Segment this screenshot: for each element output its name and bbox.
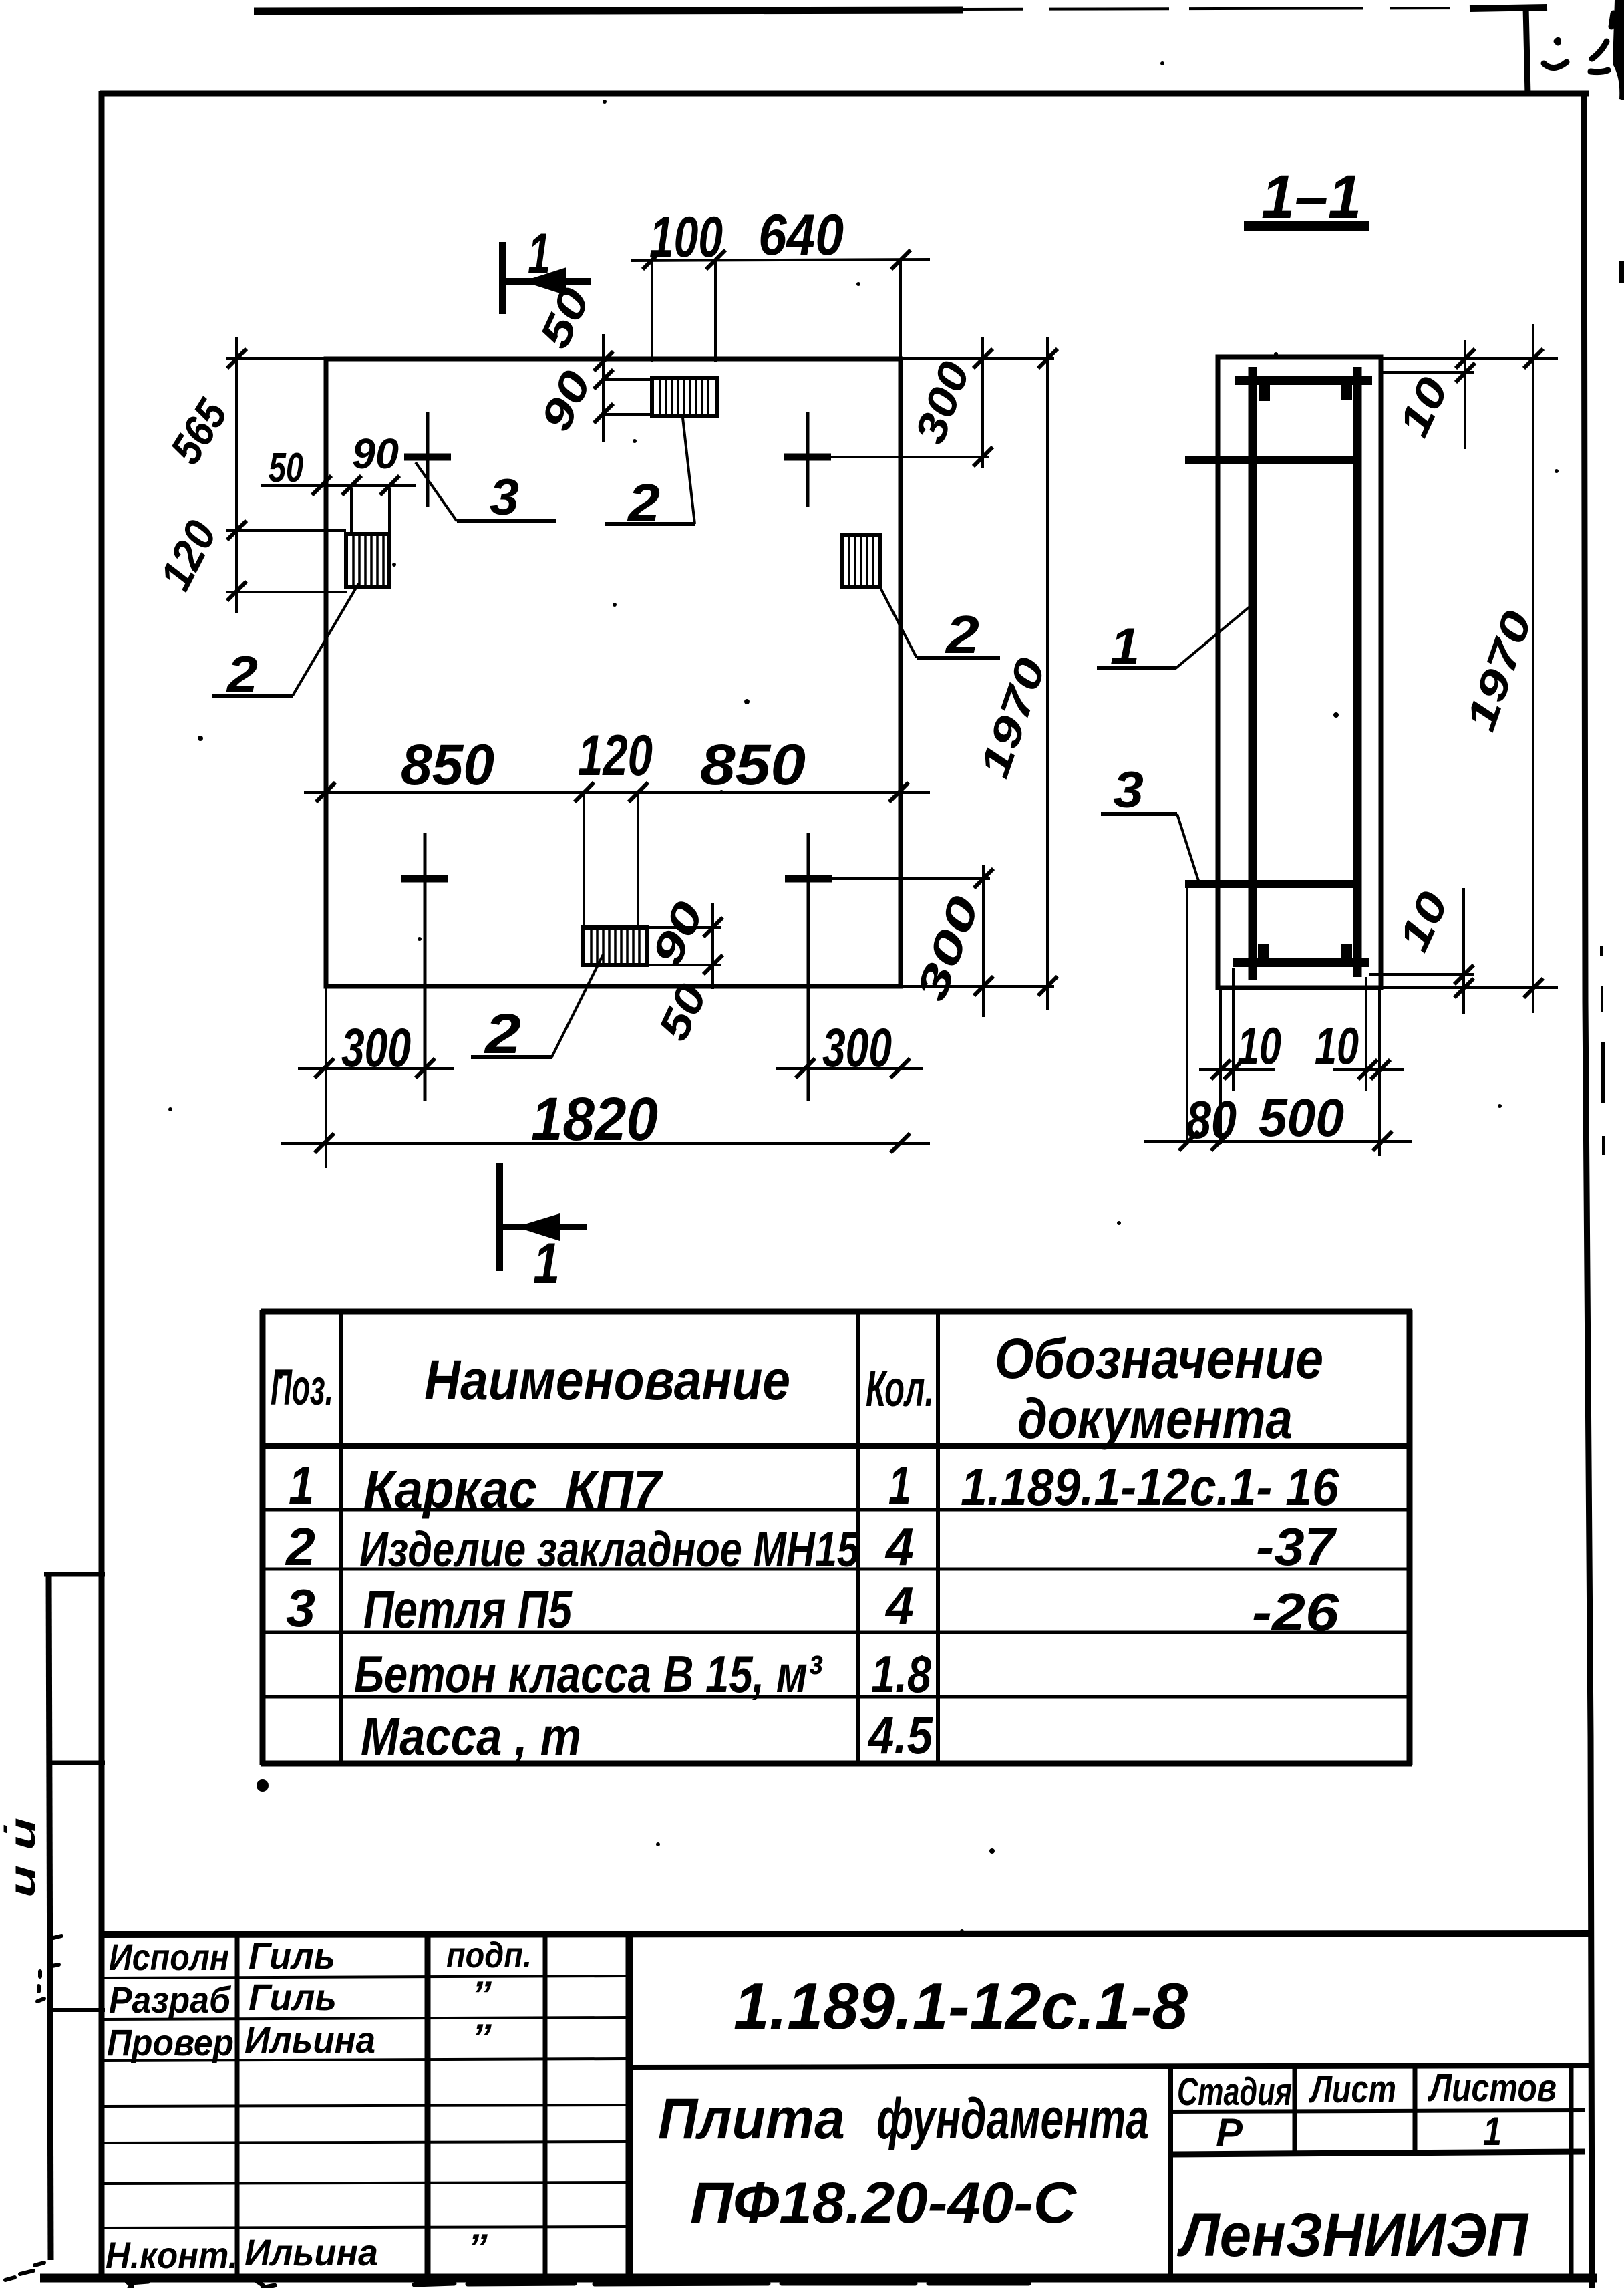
loop cross bottom-right [785,833,990,1101]
section cut mark top: arrow tail [504,278,591,285]
svg-text:90: 90 [352,430,399,478]
svg-text:1970: 1970 [1458,605,1541,736]
section rect right edge extension down [1378,990,1381,1156]
leader and label 2 (bottom item) [471,954,603,1065]
rebar cage: left vertical bar [1249,367,1257,980]
svg-text:10: 10 [1389,885,1457,958]
leader and label 2 (top-center item) [605,418,695,533]
plate left edge extension down [325,986,327,1168]
svg-text:-37: -37 [1256,1517,1337,1576]
stadiya sub-table grid [1170,2067,1585,2276]
dim 300 bottom-right horizontal [776,1058,923,1078]
svg-text:Ильина: Ильина [245,2019,375,2061]
svg-text:50: 50 [530,281,599,355]
svg-text:1: 1 [528,222,550,286]
embedded item MN15 bottom-center (hatched) [583,927,647,965]
dim 1820 overall [281,1133,930,1153]
svg-text:Ильина: Ильина [245,2231,378,2273]
left margin tick middle [47,1761,105,1765]
svg-text:850: 850 [700,733,806,797]
svg-text:3: 3 [1113,762,1144,819]
svg-text:1: 1 [533,1232,560,1296]
svg-text:3: 3 [490,469,519,526]
svg-text:Провер: Провер [107,2021,234,2063]
loop cross bottom-left [401,833,448,1101]
embedded item MN15 left (hatched) [346,534,389,587]
corner stamp handwriting marks [1544,13,1613,72]
svg-text:подп.: подп. [446,1935,532,1975]
dim line top (100,640) [631,250,930,362]
dim 90 top-center rotated [531,364,600,438]
left margin tick lower [47,2008,105,2012]
loop cross top-right [784,412,989,507]
svg-text:1970: 1970 [971,652,1055,783]
dim 90 bottom-center vertical [649,903,723,989]
svg-text:1: 1 [888,1455,911,1515]
dim 300 bottom-right vertical [974,865,993,1017]
svg-text:90: 90 [642,894,713,972]
ink dot below table [257,1779,269,1792]
svg-text:Гиль: Гиль [249,1935,335,1977]
plate bottom edge extension right [901,985,1054,988]
svg-text:120: 120 [150,513,226,597]
svg-text:документа: документа [1017,1387,1293,1450]
sheet border top line [100,91,1589,97]
svg-text:Исполн: Исполн [109,1936,229,1978]
section cut mark top: bar [499,242,506,314]
svg-text:ЛенЗНИИЭП: ЛенЗНИИЭП [1176,2201,1528,2269]
stray top edge line (right thick stub) [1470,7,1547,9]
svg-text:2: 2 [285,1517,315,1576]
left margin bracket column vertical line [44,1572,105,2260]
loop cross top-left [404,412,451,507]
dim 50 top-center rotated [530,281,599,355]
svg-text:50: 50 [269,445,303,491]
leader and label 2 (left item) [212,583,359,703]
plan view: plate outline [326,359,901,986]
svg-text:1: 1 [289,1455,314,1515]
section cut mark top: arrowhead [522,267,566,295]
svg-text:Разраб: Разраб [109,1979,231,2021]
plate right edge extension up [899,260,902,359]
section bottom-right bar level extension [1369,973,1474,976]
svg-text:100: 100 [649,205,723,269]
leader and label 3 (loop P5) [1101,762,1198,881]
rebar bottom bar hook right [1341,944,1352,960]
dim text 50 bottom rotated [649,976,716,1048]
svg-text:565: 565 [160,390,237,472]
sheet border left line [99,91,105,2280]
svg-text:850: 850 [401,733,494,797]
section cut mark bottom: arrow tail [501,1224,587,1230]
svg-text:”: ” [468,2226,488,2268]
dim text 1970 section rotated [1458,605,1541,736]
svg-text:4.5: 4.5 [867,1705,933,1765]
svg-text:Бетон класса В 15, м³: Бетон класса В 15, м³ [354,1644,823,1703]
stray top edge line (solid part) [254,10,963,11]
title block top line [102,1933,1589,1935]
dim text 120 rotated [150,513,226,597]
svg-text:фундамента: фундамента [876,2087,1149,2151]
svg-text:2: 2 [945,605,979,664]
svg-text:640: 640 [758,203,844,267]
dim text 565 rotated [160,390,237,472]
svg-text:”: ” [472,2016,492,2058]
line under designation cell [629,2065,1589,2067]
dim 50/90 top-left horizontal [261,476,416,534]
plate top edge extension right [901,357,1054,360]
svg-text:3: 3 [286,1578,315,1638]
svg-text:1–1: 1–1 [1261,163,1361,231]
dim text 1970 plan rotated [971,652,1055,783]
rebar cage: right vertical bar [1353,367,1362,977]
dim text 300 top-right rotated [905,355,979,450]
left dims 565/120 vertical line [226,337,347,613]
sheet border bottom line [40,2274,1597,2283]
svg-text:10: 10 [1389,370,1457,444]
dim 1970 plan vertical [1038,337,1058,1010]
svg-text:Масса , т: Масса , т [361,1707,581,1766]
svg-text:Плита: Плита [658,2087,845,2151]
svg-text:4: 4 [884,1576,914,1635]
svg-text:Наименование: Наименование [424,1348,790,1411]
title block personnel grid columns [237,1933,629,2278]
leader and label 3 (loop pos.3) [416,462,556,526]
dim 80/500 bottom of section [1144,1131,1412,1151]
section title underline [1244,221,1369,231]
section cut mark bottom: bar [496,1163,503,1271]
svg-text:Стадия: Стадия [1177,2070,1292,2114]
left margin rotated handwriting [3,1818,43,1898]
svg-text:”: ” [472,1973,492,2015]
svg-text:Каркас КП7: Каркас КП7 [363,1459,663,1519]
svg-text:1.189.1-12с.1- 16: 1.189.1-12с.1- 16 [961,1457,1339,1516]
svg-text:300: 300 [907,890,988,1007]
svg-text:Р: Р [1216,2110,1243,2155]
dim 300 top-right vertical [973,337,993,468]
svg-text:10: 10 [1315,1016,1359,1075]
right gutter dark marks [1600,0,1624,1155]
stray top edge line (thin dashed part) [963,8,1476,9]
svg-text:80: 80 [1186,1090,1237,1149]
specification table grid [261,1310,1412,1765]
section cut mark bottom: arrowhead [516,1213,560,1241]
rebar cage: top horizontal bar [1235,376,1372,385]
section view: concrete outline [1218,357,1381,988]
loop P5 top bar (protruding left) [1185,456,1357,464]
10/10 extension left [1232,968,1235,1091]
svg-text:1820: 1820 [531,1085,658,1153]
svg-text:120: 120 [578,724,653,788]
svg-text:1.189.1-12с.1-8: 1.189.1-12с.1-8 [734,1969,1188,2043]
svg-text:4: 4 [884,1517,914,1576]
10/10 extension right [1365,977,1367,1091]
svg-text:10: 10 [1237,1016,1281,1075]
plate top edge extension left [226,357,326,360]
svg-text:-26: -26 [1252,1582,1339,1642]
svg-text:ПФ18.20-40-С: ПФ18.20-40-С [690,2171,1078,2235]
dim text 90 bottom rotated [642,894,713,972]
svg-text:Петля П5: Петля П5 [363,1580,573,1639]
section rebar top level extension right [1381,371,1474,374]
dim text 10 top-right rotated [1389,370,1457,444]
corner stamp box vertical line [1526,7,1528,95]
svg-text:Изделие закладное МН15: Изделие закладное МН15 [359,1522,860,1577]
dim text 10 bottom-right rotated [1389,885,1457,958]
mid dim line 850/120/850 [304,782,930,927]
svg-text:Поз.: Поз. [271,1359,333,1416]
stadiya sub-table right edge [1569,2067,1574,2276]
title block personnel grid rows [104,1976,627,2228]
leader and label 1 (karkas KP7) [1097,605,1251,675]
signature marks below bottom border [127,2281,1029,2288]
svg-text:Кол.: Кол. [866,1361,934,1417]
svg-text:Гиль: Гиль [249,1976,337,2018]
dim 10 top-right vertical [1456,340,1475,449]
svg-text:Обозначение: Обозначение [995,1327,1323,1390]
svg-text:u u̇: u u̇ [3,1818,43,1898]
embedded item MN15 top-center (hatched) [652,378,717,416]
rebar cage: bottom horizontal bar [1233,958,1369,967]
left margin dotted inventory scribble [5,1936,61,2280]
section top edge extension right [1381,357,1558,360]
left margin tick top [44,1572,105,1577]
svg-text:500: 500 [1259,1088,1344,1147]
svg-text:1.8: 1.8 [871,1644,932,1703]
svg-text:Н.конт.: Н.конт. [106,2234,238,2276]
loop extension line down-left [1186,886,1188,1145]
svg-text:90: 90 [531,364,600,438]
section rect left edge extension down [1219,990,1222,1144]
rebar top bar hook left [1259,384,1270,401]
svg-text:Листов: Листов [1428,2066,1557,2110]
svg-text:Лист: Лист [1309,2067,1396,2111]
embedded item MN15 right (hatched) [842,535,880,587]
section bottom edge extension right [1381,986,1558,989]
dim 300 bottom-left horizontal [298,1058,454,1078]
dim 10/10 bottom of section [1199,1060,1404,1079]
dim 10 bottom-right vertical [1454,888,1474,1014]
svg-text:1: 1 [1483,2109,1502,2154]
sheet border right line [1584,94,1592,2288]
dim text 300 bottom-right rotated [907,890,988,1007]
svg-text:300: 300 [905,355,979,450]
dim line vertical 50/90 top-center [594,334,652,442]
svg-text:300: 300 [341,1018,411,1079]
rebar bottom bar hook left [1258,944,1269,960]
dim 1970 section vertical [1524,324,1543,1013]
scan noise specks [168,61,1559,1933]
leader and label 2 (right item) [879,585,1000,664]
svg-text:300: 300 [822,1018,892,1079]
loop P5 bottom bar (protruding left) [1185,880,1357,888]
rebar top bar hook right [1341,384,1352,400]
